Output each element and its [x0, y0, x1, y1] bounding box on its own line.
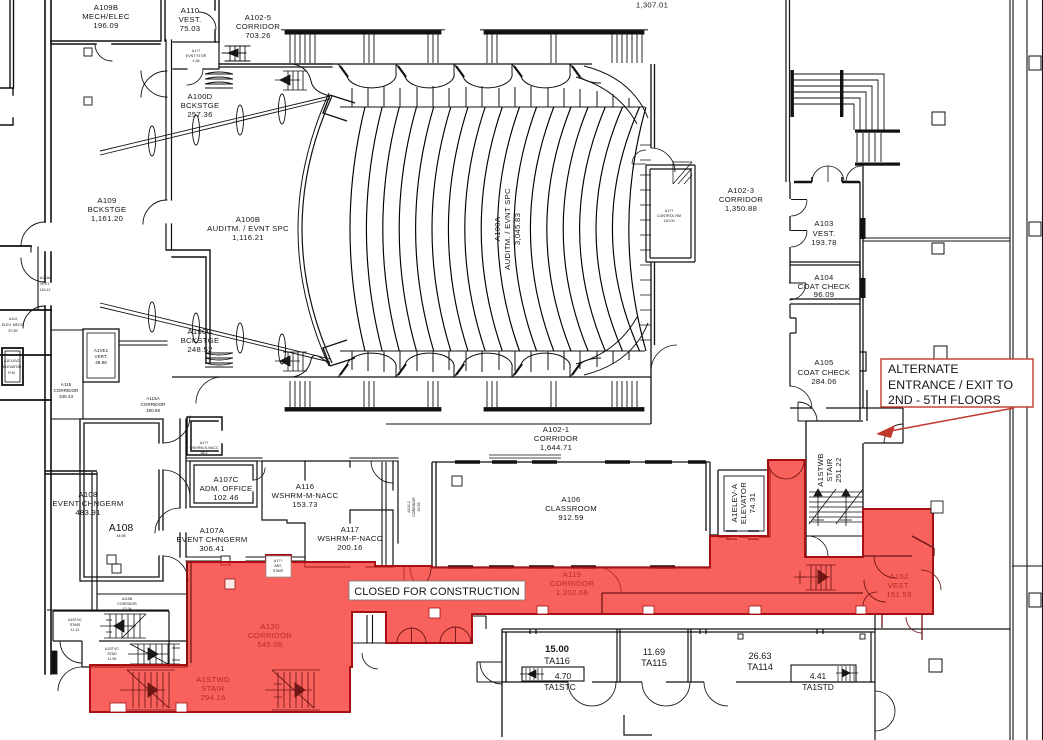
alternate entrance note box [881, 359, 1033, 407]
svg-text:A109B: A109B [94, 3, 119, 12]
A105 coat check [790, 304, 860, 408]
svg-text:EVENT CHNGERM: EVENT CHNGERM [52, 499, 123, 508]
svg-text:A102-2: A102-2 [407, 501, 411, 513]
A152 vest walls under red [863, 536, 934, 556]
stair treads below A1STWB in red [794, 565, 836, 590]
svg-text:TA1STC: TA1STC [544, 682, 576, 692]
svg-text:A115B: A115B [122, 597, 133, 601]
svg-text:A103: A103 [814, 219, 833, 228]
svg-text:WSHRM-S-NACC: WSHRM-S-NACC [190, 446, 219, 450]
closed for construction box [349, 581, 525, 600]
svg-text:AUDITM. / EVNT SPC: AUDITM. / EVNT SPC [503, 188, 512, 270]
svg-text:COAT CHECK: COAT CHECK [798, 368, 851, 377]
svg-text:40.55: 40.55 [417, 503, 421, 512]
proscenium corner blocks [323, 95, 355, 121]
row front band bottom [340, 350, 645, 352]
svg-text:A1STVC: A1STVC [68, 618, 82, 622]
svg-text:EVNT STOR: EVNT STOR [186, 54, 207, 58]
stair A1STWB room [806, 165, 867, 557]
svg-text:4.70: 4.70 [555, 671, 572, 681]
svg-text:VEST.: VEST. [40, 282, 50, 286]
stage rigging top bars [285, 31, 441, 35]
A102-5 corridor south wall [219, 64, 332, 67]
NE stair block [791, 70, 901, 166]
svg-text:57.89: 57.89 [9, 329, 18, 333]
svg-text:TA114: TA114 [747, 662, 773, 672]
svg-text:180.66: 180.66 [146, 408, 160, 413]
room label A1STWB vertical [816, 453, 843, 486]
svg-text:ALTERNATE: ALTERNATE [888, 362, 959, 376]
A1LVE VERT room [83, 329, 119, 382]
room label elevator vertical [730, 482, 757, 524]
stage rigging bottom bars [285, 408, 441, 412]
svg-text:VEST.: VEST. [179, 15, 202, 24]
svg-text:44.98: 44.98 [117, 534, 126, 538]
svg-text:912.59: 912.59 [558, 513, 583, 522]
corridor A115/A115A walls to A108 [119, 341, 167, 345]
A107A bottom walls [186, 557, 305, 561]
svg-text:306.41: 306.41 [199, 544, 224, 553]
stage-left small stair [275, 71, 307, 90]
stage-left small stair bottom [275, 352, 307, 371]
A119/A120 under-red linework (walls appear dark red under overlay) [187, 562, 191, 667]
svg-text:A107A: A107A [200, 526, 225, 535]
svg-text:ELEV. MECH.: ELEV. MECH. [2, 323, 24, 327]
corridor A102-5 stair (small, by A110) [222, 46, 250, 61]
svg-text:CLOSED FOR CONSTRUCTION: CLOSED FOR CONSTRUCTION [354, 586, 519, 598]
svg-text:A105: A105 [814, 358, 833, 367]
svg-text:248.52: 248.52 [187, 345, 212, 354]
svg-text:A110: A110 [181, 6, 200, 15]
svg-text:CORRIDOR: CORRIDOR [140, 402, 166, 407]
svg-text:1,307.01: 1,307.01 [636, 1, 668, 10]
corridor to stair: door arc (alternate entrance) [860, 408, 903, 443]
svg-text:ELEVATOR: ELEVATOR [3, 365, 22, 369]
bottom L wall [624, 715, 652, 735]
left rooms A114A/A114/ELEVD [0, 246, 51, 400]
NE corner wing curve [576, 66, 648, 124]
svg-text:A1ELEV-A: A1ELEV-A [730, 483, 739, 522]
corridor wall x=180 [180, 419, 186, 557]
svg-text:A1??: A1?? [665, 209, 673, 213]
svg-text:140.00: 140.00 [664, 219, 675, 223]
SE corner wing curve [576, 317, 648, 375]
column squares right [932, 112, 945, 125]
corridor A102-1 north wall [386, 423, 651, 425]
A104 coat check [790, 262, 860, 299]
svg-text:CORRIDOR: CORRIDOR [236, 22, 280, 31]
svg-text:200.16: 200.16 [337, 543, 362, 552]
wall between washrooms and corridor right [393, 461, 398, 543]
svg-text:WSHRM-M-NACC: WSHRM-M-NACC [272, 491, 339, 500]
svg-text:96.09: 96.09 [814, 290, 835, 299]
svg-text:36.2: 36.2 [201, 451, 208, 455]
svg-text:A108: A108 [78, 490, 97, 499]
svg-text:A106: A106 [561, 495, 580, 504]
svg-text:A1STVC: A1STVC [105, 647, 119, 651]
svg-text:BCKSTGE: BCKSTGE [88, 205, 127, 214]
svg-text:A116: A116 [296, 482, 315, 491]
svg-text:A100A: A100A [493, 216, 502, 241]
A107C office [190, 461, 257, 507]
stair A1STVC room 2 [82, 594, 187, 667]
auditorium south wall [172, 376, 651, 378]
riser stack bottom [205, 353, 233, 367]
svg-text:STAIR: STAIR [273, 569, 284, 573]
svg-text:153.73: 153.73 [292, 500, 317, 509]
TA rooms band [502, 629, 875, 737]
svg-text:A1STWB: A1STWB [816, 453, 825, 486]
svg-text:A115A: A115A [146, 396, 160, 401]
svg-text:2ND - 5TH FLOORS: 2ND - 5TH FLOORS [888, 393, 1001, 407]
svg-text:74.31: 74.31 [748, 493, 757, 514]
svg-text:A117: A117 [341, 525, 360, 534]
tiny squares TA114 [738, 634, 743, 639]
svg-text:1,644.71: 1,644.71 [540, 443, 572, 452]
svg-text:4.38: 4.38 [193, 59, 200, 63]
A117 washroom [305, 510, 393, 567]
doors classroom bottom [410, 567, 436, 593]
svg-text:26.63: 26.63 [749, 651, 772, 661]
red area stair A1STWD treads [120, 670, 320, 710]
room label A100A (vertical) [493, 188, 522, 270]
svg-text:CORRIDOR: CORRIDOR [53, 388, 79, 393]
svg-text:STAIR: STAIR [825, 458, 834, 482]
svg-text:A102-1: A102-1 [543, 425, 570, 434]
row front band top [340, 106, 645, 108]
white notches on red [266, 556, 291, 577]
svg-text:STAD: STAD [107, 652, 117, 656]
west wall inner leaf x=11 top [0, 0, 14, 125]
east auditorium wall [651, 64, 655, 424]
A109 backstage right double wall [166, 40, 172, 250]
corridor A102-2 walls [382, 462, 386, 565]
control room [646, 165, 695, 262]
room A109B walls [51, 41, 160, 44]
svg-text:BCKSTGE: BCKSTGE [181, 336, 220, 345]
door arcs below band [568, 682, 592, 706]
svg-text:A1ELEVD: A1ELEVD [4, 359, 21, 363]
svg-text:R.M.: R.M. [8, 371, 16, 375]
rigging hatch clusters top [290, 34, 315, 63]
svg-text:TA115: TA115 [641, 658, 667, 668]
evnt stor room [173, 42, 219, 69]
svg-text:A107C: A107C [213, 475, 238, 484]
svg-text:A1??: A1?? [200, 441, 208, 445]
svg-text:345.43: 345.43 [59, 394, 73, 399]
corridor A102-1 south boundary walls y=461 [187, 458, 398, 461]
svg-text:A102-5: A102-5 [245, 13, 272, 22]
svg-text:149.12: 149.12 [40, 288, 51, 292]
auditorium north wall [219, 63, 592, 65]
A103 vest room [790, 182, 860, 420]
svg-text:284.06: 284.06 [811, 377, 836, 386]
stage front curve [302, 96, 332, 363]
svg-text:703.26: 703.26 [245, 31, 270, 40]
A114A jog walls [167, 250, 210, 363]
svg-text:VERT.: VERT. [95, 354, 108, 359]
stage top diagonal w/ lenses [100, 96, 330, 155]
svg-text:CONTROL RM: CONTROL RM [657, 214, 681, 218]
classroom A106 [432, 462, 710, 567]
svg-text:ENTRANCE / EXIT TO: ENTRANCE / EXIT TO [888, 378, 1013, 392]
svg-text:1,350.88: 1,350.88 [725, 204, 757, 213]
small wshrm above A107C [187, 417, 222, 455]
south scallop curtain band (mirrored) [338, 353, 396, 377]
svg-text:11.11: 11.11 [71, 628, 79, 632]
A116 washroom [262, 461, 350, 523]
A108 room [80, 419, 163, 581]
svg-text:CORRIDOR: CORRIDOR [412, 497, 416, 517]
corridor doors into A119 at classroom left [403, 567, 405, 592]
stair treads [809, 489, 863, 526]
svg-text:1,116.21: 1,116.21 [232, 233, 264, 242]
classroom window black segs top [455, 460, 706, 463]
west exterior door arcs y 222-305 [21, 222, 45, 282]
svg-text:CLASSROOM: CLASSROOM [545, 504, 597, 513]
svg-text:193.78: 193.78 [811, 238, 836, 247]
svg-text:A114: A114 [9, 317, 17, 321]
A103 vest block top doors [794, 181, 860, 184]
svg-text:A114A: A114A [40, 276, 51, 280]
room label A102-2 vertical [407, 497, 421, 517]
svg-text:CORRIDOR: CORRIDOR [534, 434, 578, 443]
svg-text:15.00: 15.00 [545, 644, 569, 655]
TA1STD box [791, 665, 856, 682]
svg-text:3,045.83: 3,045.83 [513, 213, 522, 245]
double doors at A119 west top [768, 461, 786, 479]
seating rows arcs [350, 107, 365, 351]
svg-text:MECH/ELEC: MECH/ELEC [82, 12, 130, 21]
svg-text:BCKSTGE: BCKSTGE [181, 101, 220, 110]
red leader arrow [890, 408, 1014, 431]
svg-text:A100B: A100B [236, 215, 261, 224]
svg-text:11.69: 11.69 [643, 647, 665, 657]
east long walls [1010, 0, 1013, 740]
svg-text:75.03: 75.03 [180, 24, 201, 33]
corridor A119 south wall under red [602, 593, 863, 614]
svg-text:A109: A109 [97, 196, 116, 205]
svg-text:ELEVATOR: ELEVATOR [739, 482, 748, 524]
elevator D dark box [2, 348, 23, 385]
corridor A102-3 west wall [786, 0, 790, 182]
north scallop curtain band [338, 64, 396, 88]
svg-text:102.46: 102.46 [213, 493, 238, 502]
svg-text:A1VE1: A1VE1 [94, 348, 109, 353]
svg-text:WSHRM-F-NACC: WSHRM-F-NACC [317, 534, 382, 543]
svg-text:1,161.20: 1,161.20 [91, 214, 123, 223]
svg-text:11.59: 11.59 [108, 657, 117, 661]
corridor A115B walls [47, 594, 187, 610]
west lower walls [92, 472, 97, 610]
svg-text:4.41: 4.41 [810, 671, 827, 681]
bottom right walls / doors [875, 628, 1010, 630]
riser stack top [205, 72, 233, 88]
svg-text:STAIR: STAIR [70, 623, 81, 627]
corridor window lines [489, 455, 561, 458]
svg-text:483.91: 483.91 [75, 508, 100, 517]
svg-text:EVENT CHNGERM: EVENT CHNGERM [176, 535, 247, 544]
svg-text:257.36: 257.36 [187, 110, 212, 119]
svg-text:VEST.: VEST. [813, 229, 836, 238]
svg-text:13.34: 13.34 [123, 607, 132, 611]
svg-text:A115: A115 [61, 382, 72, 387]
column squares A109 [84, 48, 92, 56]
corridor A115 walls [51, 330, 83, 419]
red construction zone overlay [90, 460, 933, 712]
outer west double wall [45, 0, 51, 674]
svg-text:ADM. OFFICE: ADM. OFFICE [200, 484, 253, 493]
svg-text:A100D: A100D [187, 92, 212, 101]
svg-text:TA116: TA116 [544, 656, 570, 666]
svg-text:A1??: A1?? [192, 49, 200, 53]
svg-text:A1??: A1?? [274, 559, 282, 563]
svg-text:ABT.: ABT. [274, 564, 282, 568]
svg-text:CORRIDOR: CORRIDOR [117, 602, 137, 606]
stage bottom diagonal w/ lenses [100, 303, 330, 362]
svg-text:A108: A108 [109, 522, 134, 534]
A109B door arc [95, 44, 112, 61]
A110 vest walls [161, 0, 219, 42]
svg-text:251.22: 251.22 [834, 457, 843, 482]
stair A1STVC room 1 [53, 611, 187, 641]
svg-text:AUDITM. / EVNT SPC: AUDITM. / EVNT SPC [207, 224, 289, 233]
corridor A115A top door arc [196, 377, 222, 403]
svg-text:CORRIDOR: CORRIDOR [719, 195, 763, 204]
elevator A1ELEV-A [718, 470, 770, 537]
svg-text:TA1STD: TA1STD [802, 682, 834, 692]
svg-text:A104: A104 [814, 273, 834, 282]
svg-text:A102-3: A102-3 [728, 186, 755, 195]
svg-text:48.96: 48.96 [95, 360, 107, 365]
TA1STC box [522, 667, 584, 681]
svg-text:A100C: A100C [187, 327, 212, 336]
svg-text:196.09: 196.09 [93, 21, 118, 30]
